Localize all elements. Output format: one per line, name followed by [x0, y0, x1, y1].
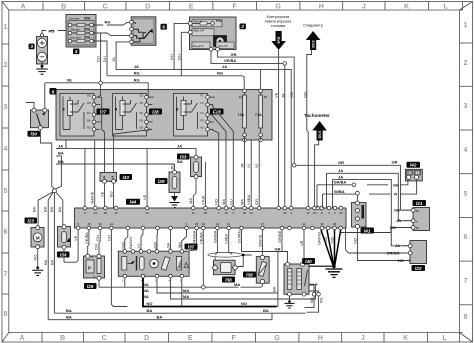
injector unit l37 — [118, 247, 189, 283]
resistor unit l26 — [84, 254, 105, 280]
relay K1 inside box 5 — [60, 94, 96, 137]
ground below l29 — [170, 193, 180, 208]
svg-text:GR: GR — [254, 199, 259, 205]
wire JA row mid — [56, 140, 196, 208]
main ground — [326, 265, 343, 278]
oxygen sensor l38 — [208, 253, 252, 275]
svg-text:l30: l30 — [31, 132, 38, 137]
arrow up speedometer — [306, 31, 321, 50]
tag l26 — [84, 283, 97, 289]
svg-text:VI: VI — [246, 164, 251, 168]
tag l38 — [222, 277, 235, 283]
connector l21 — [411, 208, 429, 231]
svg-text:l28: l28 — [152, 109, 159, 114]
svg-text:6: 6 — [162, 25, 165, 30]
svg-text:K: K — [403, 335, 408, 342]
svg-text:12: 12 — [307, 211, 311, 215]
svg-text:GR: GR — [338, 160, 344, 165]
svg-text:3: 3 — [3, 104, 7, 111]
svg-text:3/0.5: 3/0.5 — [318, 131, 322, 139]
svg-text:JA: JA — [177, 143, 182, 148]
tag l22 — [412, 265, 426, 271]
relay K3 inside box 5 — [174, 94, 210, 137]
wire GR to l42 pin3 — [367, 179, 408, 187]
wire from tachometer arrow to bar — [315, 141, 319, 209]
svg-text:DU: DU — [176, 54, 181, 60]
svg-text:50A: 50A — [84, 16, 91, 20]
svg-text:B2: B2 — [416, 226, 420, 230]
svg-text:D: D — [144, 335, 149, 342]
wires bar pins to l38 area — [190, 230, 233, 285]
svg-text:14: 14 — [216, 222, 220, 226]
svg-text:Кнопка: Кнопка — [71, 35, 81, 39]
tag 4 — [73, 49, 79, 55]
svg-text:15: 15 — [313, 211, 317, 215]
svg-text:GR/NO: GR/NO — [317, 232, 322, 245]
svg-text:GR/VE: GR/VE — [257, 234, 262, 247]
wire NO row — [143, 278, 278, 307]
svg-text:B: B — [60, 335, 65, 342]
svg-text:L: L — [443, 3, 448, 10]
wire VI to l42 pin11 — [369, 179, 417, 196]
svg-text:K2: K2 — [201, 126, 205, 130]
svg-text:28: 28 — [204, 211, 208, 215]
wires bar to l39 — [257, 230, 262, 255]
svg-text:DU/RG: DU/RG — [237, 230, 242, 243]
svg-text:NO: NO — [330, 237, 335, 243]
connector l22 — [408, 241, 426, 264]
svg-text:D: D — [145, 3, 150, 10]
svg-text:MA: MA — [240, 199, 245, 205]
svg-text:JA: JA — [134, 64, 139, 69]
svg-text:Бел./10: Бел./10 — [219, 44, 228, 48]
svg-text:1: 1 — [3, 24, 7, 31]
svg-text:4: 4 — [74, 49, 78, 54]
svg-text:VE: VE — [100, 191, 105, 197]
svg-text:JA: JA — [111, 57, 116, 62]
arrow up tachometer — [312, 121, 327, 141]
svg-text:D5: D5 — [140, 101, 144, 105]
svg-text:NO: NO — [323, 237, 328, 243]
switch l30 — [31, 108, 49, 130]
svg-text:VI: VI — [394, 192, 398, 197]
svg-text:l29: l29 — [158, 179, 165, 184]
svg-text:J: J — [362, 3, 366, 10]
svg-text:BA: BA — [32, 206, 37, 212]
svg-text:Спидометр: Спидометр — [303, 24, 323, 28]
wire from switch l30 down to junction — [40, 130, 54, 189]
svg-text:5: 5 — [464, 191, 468, 198]
wire JA horizontal row — [116, 42, 291, 208]
svg-text:GR/BA: GR/BA — [212, 230, 217, 243]
wire from l34 down — [63, 249, 65, 262]
svg-text:VE/BA: VE/BA — [84, 232, 89, 244]
svg-text:L: L — [442, 335, 447, 342]
svg-text:топлива: топлива — [271, 24, 286, 28]
svg-text:BA: BA — [58, 151, 64, 156]
wires inside box5 from relay terminals — [96, 90, 234, 140]
svg-text:l41: l41 — [364, 228, 371, 233]
svg-text:BA: BA — [66, 314, 72, 319]
ground below motor — [32, 266, 43, 275]
svg-text:NO: NO — [289, 92, 294, 98]
svg-text:l21: l21 — [416, 201, 423, 206]
svg-text:VI/JA: VI/JA — [200, 195, 205, 205]
svg-text:19: 19 — [224, 211, 228, 215]
svg-text:NO: NO — [214, 199, 219, 205]
wire GR row to l21 — [296, 160, 411, 211]
svg-text:H: H — [318, 335, 323, 342]
svg-text:DU: DU — [228, 199, 233, 205]
wire MA row1 — [99, 278, 262, 289]
svg-text:W1: W1 — [87, 94, 91, 98]
svg-text:NO: NO — [319, 298, 323, 303]
tag l41 — [361, 228, 375, 234]
svg-text:2: 2 — [464, 60, 468, 67]
connector l42 — [405, 169, 422, 181]
svg-text:NO: NO — [87, 126, 91, 130]
svg-text:A: A — [19, 335, 24, 342]
tag l28 — [149, 109, 162, 115]
lamp text (Контрольная лампа впрыска топлива) — [265, 15, 293, 28]
svg-text:NO: NO — [398, 258, 404, 263]
node circles under ignition switch — [111, 41, 130, 62]
svg-text:Чёрн./5: Чёрн./5 — [193, 20, 202, 24]
svg-text:G: G — [275, 3, 281, 10]
wire l33 top to JA row — [195, 148, 197, 155]
resistor l41 — [352, 201, 367, 229]
wire VE bar pin5 to l34 — [64, 230, 78, 262]
svg-text:29: 29 — [202, 222, 206, 226]
wire from switch l30 up to VE row — [26, 83, 45, 108]
svg-text:l27: l27 — [100, 109, 107, 114]
wire RG horizontal row — [107, 71, 244, 89]
svg-text:32: 32 — [243, 211, 247, 215]
wire RG battery to fuse box — [42, 28, 66, 33]
svg-text:B: B — [61, 3, 66, 10]
svg-text:VE: VE — [67, 78, 73, 83]
svg-text:Огнива: Огнива — [69, 16, 80, 20]
svg-text:RG: RG — [49, 28, 55, 33]
svg-text:CH: CH — [94, 244, 99, 250]
svg-text:VE: VE — [299, 240, 304, 246]
wire CH bar pin24 down — [106, 230, 127, 307]
tag 2 — [240, 24, 246, 30]
wire DU from fuse row2 down — [93, 33, 129, 81]
svg-text:3: 3 — [30, 44, 33, 49]
tag l30 — [28, 131, 41, 137]
wire VE to bar pin10 — [142, 148, 147, 208]
ECU connector bar l44 — [75, 206, 347, 230]
svg-text:2: 2 — [3, 62, 7, 69]
svg-text:BA: BA — [263, 308, 269, 313]
svg-text:A: A — [20, 3, 25, 10]
thick wires GR/NO NO NO to main ground — [317, 230, 341, 265]
fuse 3B 7.5A in box 5 — [255, 89, 267, 142]
svg-text:2: 2 — [240, 24, 244, 29]
svg-text:9F/6: 9F/6 — [277, 37, 281, 44]
svg-text:JA: JA — [395, 243, 400, 248]
svg-text:NO: NO — [121, 242, 126, 248]
wire VE/BA bar pin35 to l26 — [84, 230, 89, 246]
svg-text:D9: D9 — [140, 126, 144, 130]
wire GR row to l40 — [237, 230, 288, 307]
tag l39 — [243, 272, 256, 278]
svg-text:VE: VE — [274, 92, 279, 98]
svg-text:GR: GR — [231, 52, 237, 57]
svg-text:SA: SA — [166, 242, 171, 248]
svg-text:29: 29 — [283, 211, 287, 215]
svg-text:B1: B1 — [416, 209, 420, 213]
tag 8 — [50, 88, 57, 95]
node on NO wire and GR row — [292, 164, 296, 168]
svg-text:NO: NO — [352, 238, 357, 244]
svg-text:GR/NO: GR/NO — [387, 251, 400, 256]
battery 3 — [37, 34, 48, 64]
svg-text:3/0.5: 3/0.5 — [312, 40, 316, 48]
svg-text:l43: l43 — [123, 175, 130, 180]
ground below l40 — [285, 300, 295, 308]
svg-text:RG: RG — [134, 71, 140, 76]
ignition switch 6 — [130, 17, 156, 46]
svg-text:l42: l42 — [410, 163, 417, 168]
svg-text:MA: MA — [177, 242, 182, 248]
wire NO from l41 down to l22 — [352, 229, 413, 264]
wire NO motor to ground — [33, 249, 38, 267]
svg-text:21: 21 — [227, 222, 231, 226]
svg-text:MA/VE: MA/VE — [90, 191, 95, 204]
svg-text:11: 11 — [192, 211, 195, 215]
svg-text:4: 4 — [103, 176, 105, 180]
svg-text:4: 4 — [3, 146, 7, 153]
svg-text:15: 15 — [115, 211, 119, 215]
svg-text:DU: DU — [102, 56, 107, 62]
tag l37 — [185, 244, 198, 250]
svg-text:NO: NO — [310, 298, 314, 303]
svg-text:GR: GR — [393, 182, 399, 187]
svg-text:BA: BA — [49, 206, 54, 212]
svg-text:l38: l38 — [225, 277, 232, 282]
svg-text:7: 7 — [464, 278, 468, 285]
svg-text:VI: VI — [136, 244, 141, 248]
tag l40 — [302, 258, 315, 264]
svg-text:34: 34 — [94, 211, 98, 215]
svg-text:DU: DU — [169, 54, 174, 60]
wire BA row mid 1 — [55, 151, 63, 189]
svg-text:NO: NO — [241, 301, 247, 306]
svg-text:JA: JA — [396, 218, 401, 223]
wire BA row2 — [48, 313, 272, 320]
svg-text:VI: VI — [254, 164, 259, 168]
wire l26 top connections — [88, 242, 99, 278]
wire MA row2 — [143, 278, 278, 293]
wire NO from speedometer arrow — [303, 50, 312, 208]
svg-text:Чёрн.J44: Чёрн.J44 — [193, 29, 205, 33]
svg-text:BA: BA — [57, 206, 62, 212]
throttle unit l40 — [284, 262, 333, 312]
svg-text:6: 6 — [3, 229, 7, 236]
wire RG fusebox to ignition switch — [93, 20, 129, 25]
svg-text:1: 1 — [122, 279, 124, 283]
svg-text:7.5A: 7.5A — [238, 113, 245, 117]
svg-text:NO: NO — [87, 101, 91, 105]
wire JA row to l21 — [327, 168, 411, 221]
tag l29 — [155, 178, 168, 184]
svg-text:F: F — [231, 335, 236, 342]
tag F28 — [210, 109, 224, 115]
svg-text:E: E — [188, 335, 193, 342]
relay K2 inside box 5 — [113, 94, 149, 137]
svg-text:D6: D6 — [140, 111, 144, 115]
tag l21 — [413, 200, 427, 206]
svg-text:GR/BA: GR/BA — [334, 180, 347, 185]
svg-text:GR: GR — [392, 160, 398, 165]
svg-text:CH: CH — [95, 235, 100, 241]
svg-text:RG: RG — [105, 20, 111, 25]
svg-text:G: G — [274, 335, 280, 342]
svg-text:VE/BA: VE/BA — [198, 232, 203, 244]
svg-text:E4: E4 — [239, 95, 243, 99]
svg-text:JA: JA — [222, 64, 227, 69]
wire DU from fuse row3 down — [93, 41, 107, 76]
wire l40 pin to bar pin31 — [299, 230, 304, 262]
svg-text:31: 31 — [302, 222, 306, 226]
svg-text:VE/BA: VE/BA — [224, 58, 236, 63]
svg-text:3: 3 — [409, 171, 411, 175]
svg-text:VE: VE — [73, 235, 78, 241]
svg-text:17: 17 — [261, 222, 265, 226]
svg-text:M: M — [36, 235, 40, 240]
sensor l33 — [191, 155, 202, 179]
wires fuse section to bar pins 32 22 — [240, 137, 261, 208]
svg-text:RG: RG — [134, 78, 140, 83]
l22 wire labels — [346, 229, 409, 256]
tag l27 — [97, 109, 110, 115]
svg-text:D5: D5 — [140, 94, 144, 98]
tag l34 — [57, 252, 70, 258]
wires l43 to bar — [100, 140, 114, 208]
svg-text:J: J — [361, 335, 365, 342]
svg-text:D9: D9 — [140, 118, 144, 122]
svg-text:24: 24 — [110, 222, 114, 226]
svg-text:H: H — [319, 3, 324, 10]
l21 wire labels — [341, 208, 412, 233]
svg-text:l37: l37 — [188, 244, 195, 249]
svg-text:l26: l26 — [87, 284, 94, 289]
svg-text:35: 35 — [87, 222, 91, 226]
tag l44 — [126, 199, 140, 205]
ground below battery — [36, 61, 48, 74]
svg-text:l40: l40 — [305, 259, 312, 264]
wire GR from relay box down right — [218, 51, 295, 165]
svg-text:27: 27 — [339, 211, 343, 215]
svg-text:l33: l33 — [180, 154, 187, 159]
wire MA/VE to bar — [90, 140, 95, 208]
relay unit box 5 — [56, 90, 272, 141]
fuel pump motor l23 — [31, 226, 44, 249]
sensor l29 — [169, 170, 180, 192]
svg-text:25: 25 — [195, 222, 199, 226]
wire W/BA from bar to l41 — [323, 189, 360, 208]
tachometer text — [304, 113, 330, 118]
svg-text:GR/BE: GR/BE — [277, 230, 282, 243]
svg-text:BU: BU — [170, 164, 175, 170]
wire BA row mid 2 — [56, 159, 183, 171]
wires bar to l37 top — [121, 230, 187, 250]
svg-text:лампа впрыска: лампа впрыска — [265, 20, 293, 24]
wire GR/BA from bar — [317, 180, 356, 208]
wire MA row3 — [143, 278, 318, 299]
svg-text:l34: l34 — [60, 252, 67, 257]
svg-text:DU: DU — [95, 56, 100, 62]
svg-text:18: 18 — [320, 222, 324, 226]
svg-text:GR: GR — [153, 242, 158, 248]
svg-text:4: 4 — [464, 147, 468, 154]
svg-text:JA: JA — [58, 143, 63, 148]
svg-text:MA: MA — [183, 294, 189, 299]
svg-text:NO: NO — [303, 92, 308, 98]
tag 6 — [161, 24, 167, 30]
svg-text:A: A — [416, 219, 418, 223]
arrow down injection lamp — [271, 31, 286, 50]
wire BU l29 top — [170, 164, 175, 170]
wire VE from arrow down — [274, 50, 279, 208]
svg-text:6: 6 — [464, 234, 468, 241]
tag 3 — [29, 44, 35, 50]
svg-text:MA: MA — [234, 282, 240, 287]
svg-text:RG: RG — [217, 71, 223, 76]
connector l43 — [100, 173, 117, 184]
svg-text:20: 20 — [104, 211, 108, 215]
svg-text:C: C — [103, 3, 108, 10]
svg-text:5: 5 — [3, 188, 7, 195]
wire VE battery area to node — [45, 78, 146, 90]
svg-text:NO: NO — [390, 225, 396, 230]
svg-text:MA: MA — [221, 199, 226, 205]
svg-text:8: 8 — [464, 314, 468, 321]
svg-text:l44: l44 — [130, 200, 137, 205]
svg-text:BU: BU — [87, 111, 91, 115]
svg-text:BA: BA — [147, 308, 153, 313]
relay box 2 — [188, 17, 236, 51]
svg-text:C: C — [102, 335, 107, 342]
wire BA l40 to ground — [271, 286, 289, 301]
wire BA row1 — [54, 308, 305, 313]
svg-text:8: 8 — [3, 311, 7, 318]
svg-text:BA: BA — [43, 206, 48, 212]
svg-text:BA: BA — [58, 159, 64, 164]
wire VI/JA to bar — [200, 162, 205, 208]
svg-text:BA: BA — [271, 286, 276, 292]
wire CH bar pin16 to l26 — [95, 230, 100, 242]
svg-text:8: 8 — [52, 89, 55, 94]
svg-text:NO: NO — [33, 255, 38, 261]
svg-text:7: 7 — [3, 271, 7, 278]
tag l23 — [25, 218, 38, 224]
wire l33 bottom MA to bar — [188, 179, 196, 208]
sensor l39 — [256, 255, 269, 283]
svg-text:Экожа: Экожа — [71, 27, 80, 31]
fuse E4 7.5A in box 5 — [238, 89, 247, 142]
svg-text:50A: 50A — [84, 27, 91, 31]
svg-text:l39: l39 — [246, 272, 253, 277]
svg-text:CH: CH — [106, 235, 111, 241]
svg-text:3B: 3B — [264, 95, 268, 99]
svg-text:11: 11 — [416, 171, 420, 175]
svg-text:NO: NO — [147, 301, 153, 306]
svg-text:JA: JA — [338, 168, 343, 173]
svg-text:GR: GR — [394, 208, 400, 213]
